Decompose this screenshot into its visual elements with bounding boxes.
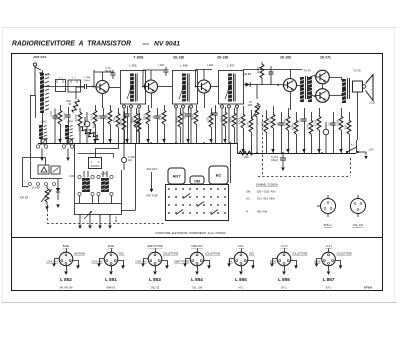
page right edge [394,27,396,303]
svg-text:BASE: BASE [108,245,115,248]
wire drops L 496 [176,108,191,143]
IF transformer L 497 [219,71,244,105]
resistor x60 [58,105,62,143]
wire drops L 497 [222,108,237,143]
wire bus end [356,140,358,153]
transistor TR5 output upper [315,70,330,84]
wire agc tap [30,95,35,97]
svg-text:1G 27: 1G 27 [243,72,252,76]
svg-text:10KpF: 10KpF [271,160,278,162]
dashed volume link [262,115,264,176]
svg-text:CONI. AVV.: CONI. AVV. [91,261,103,264]
diode D1 [243,82,257,86]
resistor x164 [162,105,166,143]
resistor x124 [122,111,126,143]
resistor audio x319 [317,108,321,153]
wire loop top [23,158,46,166]
svg-text:TU 34: TU 34 [303,69,311,73]
wire coil to boxes [44,86,85,88]
band switch contacts [168,188,226,214]
svg-text:RSF: RSF [66,101,71,103]
ground arrow L492 [66,149,70,162]
band switch tab ANT [168,168,185,184]
capacitor audio x281 [278,112,283,153]
svg-text:C 47A: C 47A [271,156,278,159]
svg-text:2G 138: 2G 138 [217,55,228,59]
dashed link power vertical [350,158,352,176]
svg-text:1 MA: 1 MA [105,114,108,120]
resistor x95 [93,105,97,143]
capacitor series C1PA [85,84,87,89]
resistor R2 diagonal [79,126,92,138]
svg-text:RADIORICEVITORE A TRANSISTOR: RADIORICEVITORE A TRANSISTOR [12,41,131,48]
svg-text:1 KA: 1 KA [306,124,309,130]
capacitor audio x333 [330,112,335,153]
svg-text:CONI. AVV.: CONI. AVV. [46,261,58,264]
capacitor audio x304 [301,108,306,153]
ground arrow pot [45,206,49,210]
wire transformer A up [84,171,88,177]
svg-text:3,9KA: 3,9KA [143,113,146,120]
wire block down B [99,196,112,203]
transistor TR1 converter [95,81,110,94]
capacitor x157 [154,108,159,143]
svg-text:EMETTITORE: EMETTITORE [174,262,189,264]
svg-text:520 ÷ 1620 KHz: 520 ÷ 1620 KHz [257,191,276,194]
svg-text:AM. 4AT. 0M: AM. 4AT. 0M [60,287,73,290]
svg-text:2G 138: 2G 138 [173,55,184,59]
resistor audio x243 [241,106,245,153]
dashed tuning vertical [47,205,49,223]
wire base TR1 [87,86,95,88]
svg-text:OSL. 05: OSL. 05 [151,288,160,290]
terminal pins L 496 [175,105,193,108]
lower box [75,204,122,215]
wire TR4 emitter [290,92,292,111]
antenna coil L490 [40,73,49,113]
svg-text:100A: 100A [336,120,339,126]
svg-text:MOD.: MOD. [143,42,150,46]
svg-text:COLLETTORE: COLLETTORE [205,254,221,256]
junction dots bus [94,142,323,154]
trimmer box 2 [51,166,60,174]
svg-text:OM: OM [194,180,200,184]
junction dot TR3 base [195,86,197,88]
wire connector up [96,144,119,158]
svg-text:L 496: L 496 [180,64,188,68]
schematic frame [12,54,383,291]
band switch tab OM [190,176,204,184]
coil L492 [65,121,74,140]
svg-text:BASE: BASE [314,261,321,264]
wire TR4 top [290,70,292,79]
electrolytic CE2 [323,122,329,153]
svg-text:NV 9041: NV 9041 [154,41,180,48]
resistor x225 [223,107,227,143]
bus line left [38,143,237,145]
potentiometer volume [41,186,52,206]
svg-text:+ 5,3 V: + 5,3 V [325,246,333,248]
svg-text:460 KHz: 460 KHz [257,211,268,214]
svg-text:1MA: 1MA [248,104,253,107]
capacitor C8A [164,67,169,76]
svg-text:AMP. BC: AMP. BC [106,287,115,290]
svg-text:C 7A: C 7A [105,67,111,70]
svg-text:5,9 ÷ 18,2 MHz: 5,9 ÷ 18,2 MHz [257,198,275,201]
pinout L 854 [183,249,211,276]
svg-text:L 492: L 492 [67,121,74,124]
resistor x110 [108,105,112,143]
pins transformer A [78,175,94,195]
resistor R3 diagonal [87,129,100,141]
pot lower [84,211,92,219]
svg-text:L 865: L 865 [235,277,247,282]
pinout L 865 [227,249,255,276]
svg-text:1 MA C: 1 MA C [115,216,118,224]
ground arrow lower 3 [98,225,102,229]
svg-text:OM :: OM : [246,191,252,194]
svg-text:C 1PA: C 1PA [84,76,91,79]
agc resistor horizontal [239,151,253,155]
svg-text:EMETTITORE: EMETTITORE [148,246,163,248]
pinout L 857 [315,249,343,276]
electrolytic C44A [121,143,126,170]
driver transformer TU34 [300,76,312,102]
wire block down A [80,196,93,203]
transistor TR2 IF1 [143,80,158,93]
page bottom edge [2,302,397,304]
svg-text:L 851: L 851 [105,277,117,282]
svg-text:ANTENNA: ANTENNA [74,253,85,256]
capacitor x215 [212,105,217,143]
svg-text:10 KAP: 10 KAP [32,187,41,190]
svg-text:OSC.: OSC. [249,254,255,256]
ground arrow diode [56,204,60,208]
wire coil segments join [42,113,44,125]
resistor x234 [232,108,236,143]
svg-text:4,7KA: 4,7KA [314,119,317,126]
wire lower right [122,210,136,212]
potentiometer P1 [252,103,261,153]
svg-text:COLLETTORE: COLLETTORE [337,254,353,256]
ground arrow C47A [281,165,285,171]
input box 2 [68,80,81,92]
wire detector link [257,85,282,100]
resistor x136 [134,108,138,143]
wire TR2 top [143,70,166,87]
wire transformer B up [103,171,107,177]
wire TR2 collector [158,86,173,88]
svg-text:L 855: L 855 [278,277,290,282]
svg-text:L 854: L 854 [191,277,203,282]
svg-text:10A: 10A [344,124,347,129]
resistor gap x80 [79,108,81,112]
svg-text:CV 12: CV 12 [20,196,28,200]
electrolytic CE1 [84,112,90,143]
svg-text:50KpF: 50KpF [63,112,66,120]
capacitor x127 [124,106,129,143]
band switch tab EC [209,166,228,184]
wire left loop [31,161,63,179]
svg-text:EC: EC [216,173,222,178]
svg-text:OSL. GM: OSL. GM [192,288,202,290]
svg-text:L 491: L 491 [41,121,48,124]
switch I41 [346,147,363,153]
svg-text:I 4.1: I 4.1 [350,144,355,147]
wire TR3 collector [211,86,219,88]
svg-text:C 44A: C 44A [128,156,135,159]
svg-text:10KA: 10KA [220,116,223,122]
resistor x180 [178,108,182,143]
dashed tuning horizontal [47,223,165,225]
svg-text:L 853: L 853 [149,277,161,282]
svg-text:ATV/A: ATV/A [364,285,373,289]
socket B [317,195,336,217]
wire box1 to TR2 [143,86,145,88]
wire TR1 emitter [102,94,104,109]
arrow ant link [150,172,154,193]
wire TR5 collector [329,78,341,81]
band switch body [166,185,229,221]
switch wipers [176,194,218,215]
lower wires [80,214,110,225]
svg-text:1 MA: 1 MA [243,156,249,159]
pinout L 852 [52,249,80,276]
junction dot TR4 base [277,84,279,86]
capacitor x103 [100,108,105,143]
svg-text:2,2KA: 2,2KA [268,117,271,124]
wire TR1 top [94,70,113,87]
bus connector [237,143,239,153]
wire TU34 out top [310,75,316,77]
wire TU34 out bottom [310,94,316,97]
svg-text:ANT. EST.: ANT. EST. [147,168,158,171]
wire TR3 emitter [204,93,206,108]
svg-text:10KpF: 10KpF [84,80,91,82]
page top edge [2,27,397,29]
capacitor x68 [65,107,70,143]
svg-text:FI :: FI : [246,211,250,214]
svg-text:L 497: L 497 [227,64,235,68]
svg-text:BASE: BASE [63,245,70,248]
capacitor C1A [35,67,43,76]
svg-text:T4L.CO: T4L.CO [353,223,364,227]
trimmer box triangle [38,165,49,174]
dashed link power horizontal [258,176,350,178]
wire box2 to TR3 [196,86,198,88]
svg-text:ANT. F21B: ANT. F21B [146,195,158,198]
svg-text:0.132: 0.132 [369,102,376,105]
wire audio top [243,69,302,71]
ground arrow lower 2 [88,225,92,229]
svg-text:A.F.1: A.F.1 [238,287,244,290]
socket T [351,195,366,217]
svg-text:22KA: 22KA [159,114,162,120]
diode D2 [56,178,60,200]
svg-text:OSC.: OSC. [119,254,125,256]
svg-text:FORNITURE ELETTRICHE COMPONE: FORNITURE ELETTRICHE COMPONENTI ALLA TOT… [155,231,225,235]
svg-text:2G 271: 2G 271 [320,55,331,59]
wire drops L 495 [124,108,139,143]
wire TR5 TR6 join [322,84,324,89]
svg-text:100A: 100A [291,124,294,130]
IF transformer L 496 [173,71,198,105]
terminal pins L492 [62,145,73,148]
capacitor C7A [111,70,116,79]
resistor RSF [71,99,79,113]
svg-text:+ 5,3 V: + 5,3 V [280,246,288,248]
svg-text:100: 100 [98,114,101,119]
svg-text:56KA: 56KA [191,114,194,120]
svg-text:C 5A: C 5A [50,111,53,117]
svg-text:1 MA: 1 MA [55,114,58,120]
variable capacitor CV2 [67,138,74,145]
pinout L 853 [141,249,169,276]
svg-text:B.B.C.: B.B.C. [324,223,333,227]
wire antenna down [35,95,37,118]
svg-text:100: 100 [149,114,152,119]
transistor TR6 output lower [315,89,330,103]
svg-text:100: 100 [299,117,302,122]
terminal pins L 495 [123,105,141,108]
wire TR3 top [196,70,213,87]
wire TR1 collector [109,87,120,89]
resistor audio x341 [339,108,343,153]
svg-text:2μF: 2μF [128,160,133,162]
svg-text:L 852: L 852 [60,277,72,282]
resistor audio x266 [264,110,268,153]
resistor audio x288 [286,108,290,153]
resistor x139 [137,113,141,143]
svg-text:COLLETTORE: COLLETTORE [292,254,308,256]
svg-text:1 KA: 1 KA [206,117,209,123]
capacitor C47A [280,153,286,165]
svg-text:L 857: L 857 [323,277,335,282]
wire L491 pins [41,139,67,145]
svg-text:1 KA: 1 KA [246,122,249,128]
capacitor upper audio [269,66,274,85]
svg-text:470A: 470A [113,117,116,123]
svg-text:2G 109: 2G 109 [280,55,291,59]
wire TR4 collector [297,85,303,87]
antenna [33,63,36,95]
resistor audio x273 [271,106,275,153]
svg-text:470A: 470A [175,117,178,123]
svg-text:10KpF: 10KpF [183,111,186,119]
resistor x196 [194,105,198,143]
capacitor x188 [185,106,190,143]
coil L491 [39,121,48,140]
junction dot TR1 base [92,86,94,88]
transistor TR3 IF2 [196,80,211,93]
svg-text:L 495: L 495 [129,64,137,68]
wire bus to switch [230,143,232,183]
svg-text:ANT. EST.: ANT. EST. [33,55,47,59]
bus line right [237,153,356,155]
svg-text:ANT: ANT [172,174,181,179]
svg-text:150A: 150A [119,120,122,126]
wire bus to block [135,143,137,210]
connector box [89,158,102,169]
resistor x118 [116,108,120,143]
IF transformer L 495 [121,71,146,105]
wire coil top [42,70,44,76]
ground arrow lower 4 [108,225,112,229]
svg-text:MIX.: MIX. [228,262,233,264]
svg-text:BASE: BASE [270,261,277,264]
speaker [353,75,374,101]
svg-text:L 494: L 494 [207,64,214,67]
wire osc to mixer [76,87,85,125]
ground arrow L491 [40,149,44,162]
oscillator transformer A [82,178,90,192]
svg-text:470A: 470A [283,120,286,126]
resistor audio x349 [347,112,351,153]
svg-text:1,5V: 1,5V [369,149,374,152]
wire block vertical left [74,143,76,203]
svg-text:TU 35: TU 35 [353,69,361,73]
svg-text:B.F.1: B.F.1 [281,288,287,290]
transistor TR4 driver [282,79,297,92]
svg-text:COLL.: COLL. [238,246,245,248]
page left edge [2,27,4,303]
svg-text:OC :: OC : [246,198,251,201]
variable capacitor CV1 [41,138,48,145]
output transformer TU35 [342,78,349,103]
svg-text:8,2KA: 8,2KA [75,114,78,121]
terminal pins volume [29,183,56,186]
frame divider [11,237,382,239]
pinout L 851 [97,249,125,276]
oscillator transformer B [101,178,109,192]
svg-text:GAMME D’ONDA: GAMME D’ONDA [256,183,278,187]
wire loop left [23,158,29,187]
resistor upper audio [261,62,263,64]
svg-text:10KpF: 10KpF [122,111,125,119]
pins transformer B [97,175,113,195]
svg-text:T 1691: T 1691 [133,55,143,59]
svg-text:LINEA AVV.: LINEA AVV. [191,245,203,248]
resistor audio x296 [294,112,298,153]
ground arrow lower 1 [78,225,82,229]
svg-text:470A: 470A [229,117,232,123]
capacitor C5A [53,109,58,144]
resistor audio x251 [249,110,253,153]
svg-text:CONI. AVV.: CONI. AVV. [135,261,147,264]
pinout L 855 [270,249,298,276]
wire connector loop [78,154,114,158]
input box 1 [56,80,66,92]
wire speaker down [357,92,359,140]
wire TR6 collector [329,94,341,96]
junction dot TR2 base [142,86,144,88]
resistor x211 [209,108,213,143]
wire TR2 emitter [151,93,153,108]
svg-text:4,7KA: 4,7KA [90,113,93,120]
svg-text:39KA: 39KA [131,117,134,123]
svg-text:COLLETTORE: COLLETTORE [163,254,179,256]
svg-text:4,7KA: 4,7KA [238,117,241,124]
svg-text:B.F.1: B.F.1 [326,288,332,290]
terminal pins L491 [36,145,47,148]
terminal pins L 497 [221,105,239,108]
svg-text:L 493: L 493 [158,64,165,67]
battery arrow [363,152,368,160]
resistor x148 [146,105,150,143]
wire block vertical right [121,170,123,203]
resistor audio x311 [309,112,313,153]
wire agc left [30,95,32,160]
